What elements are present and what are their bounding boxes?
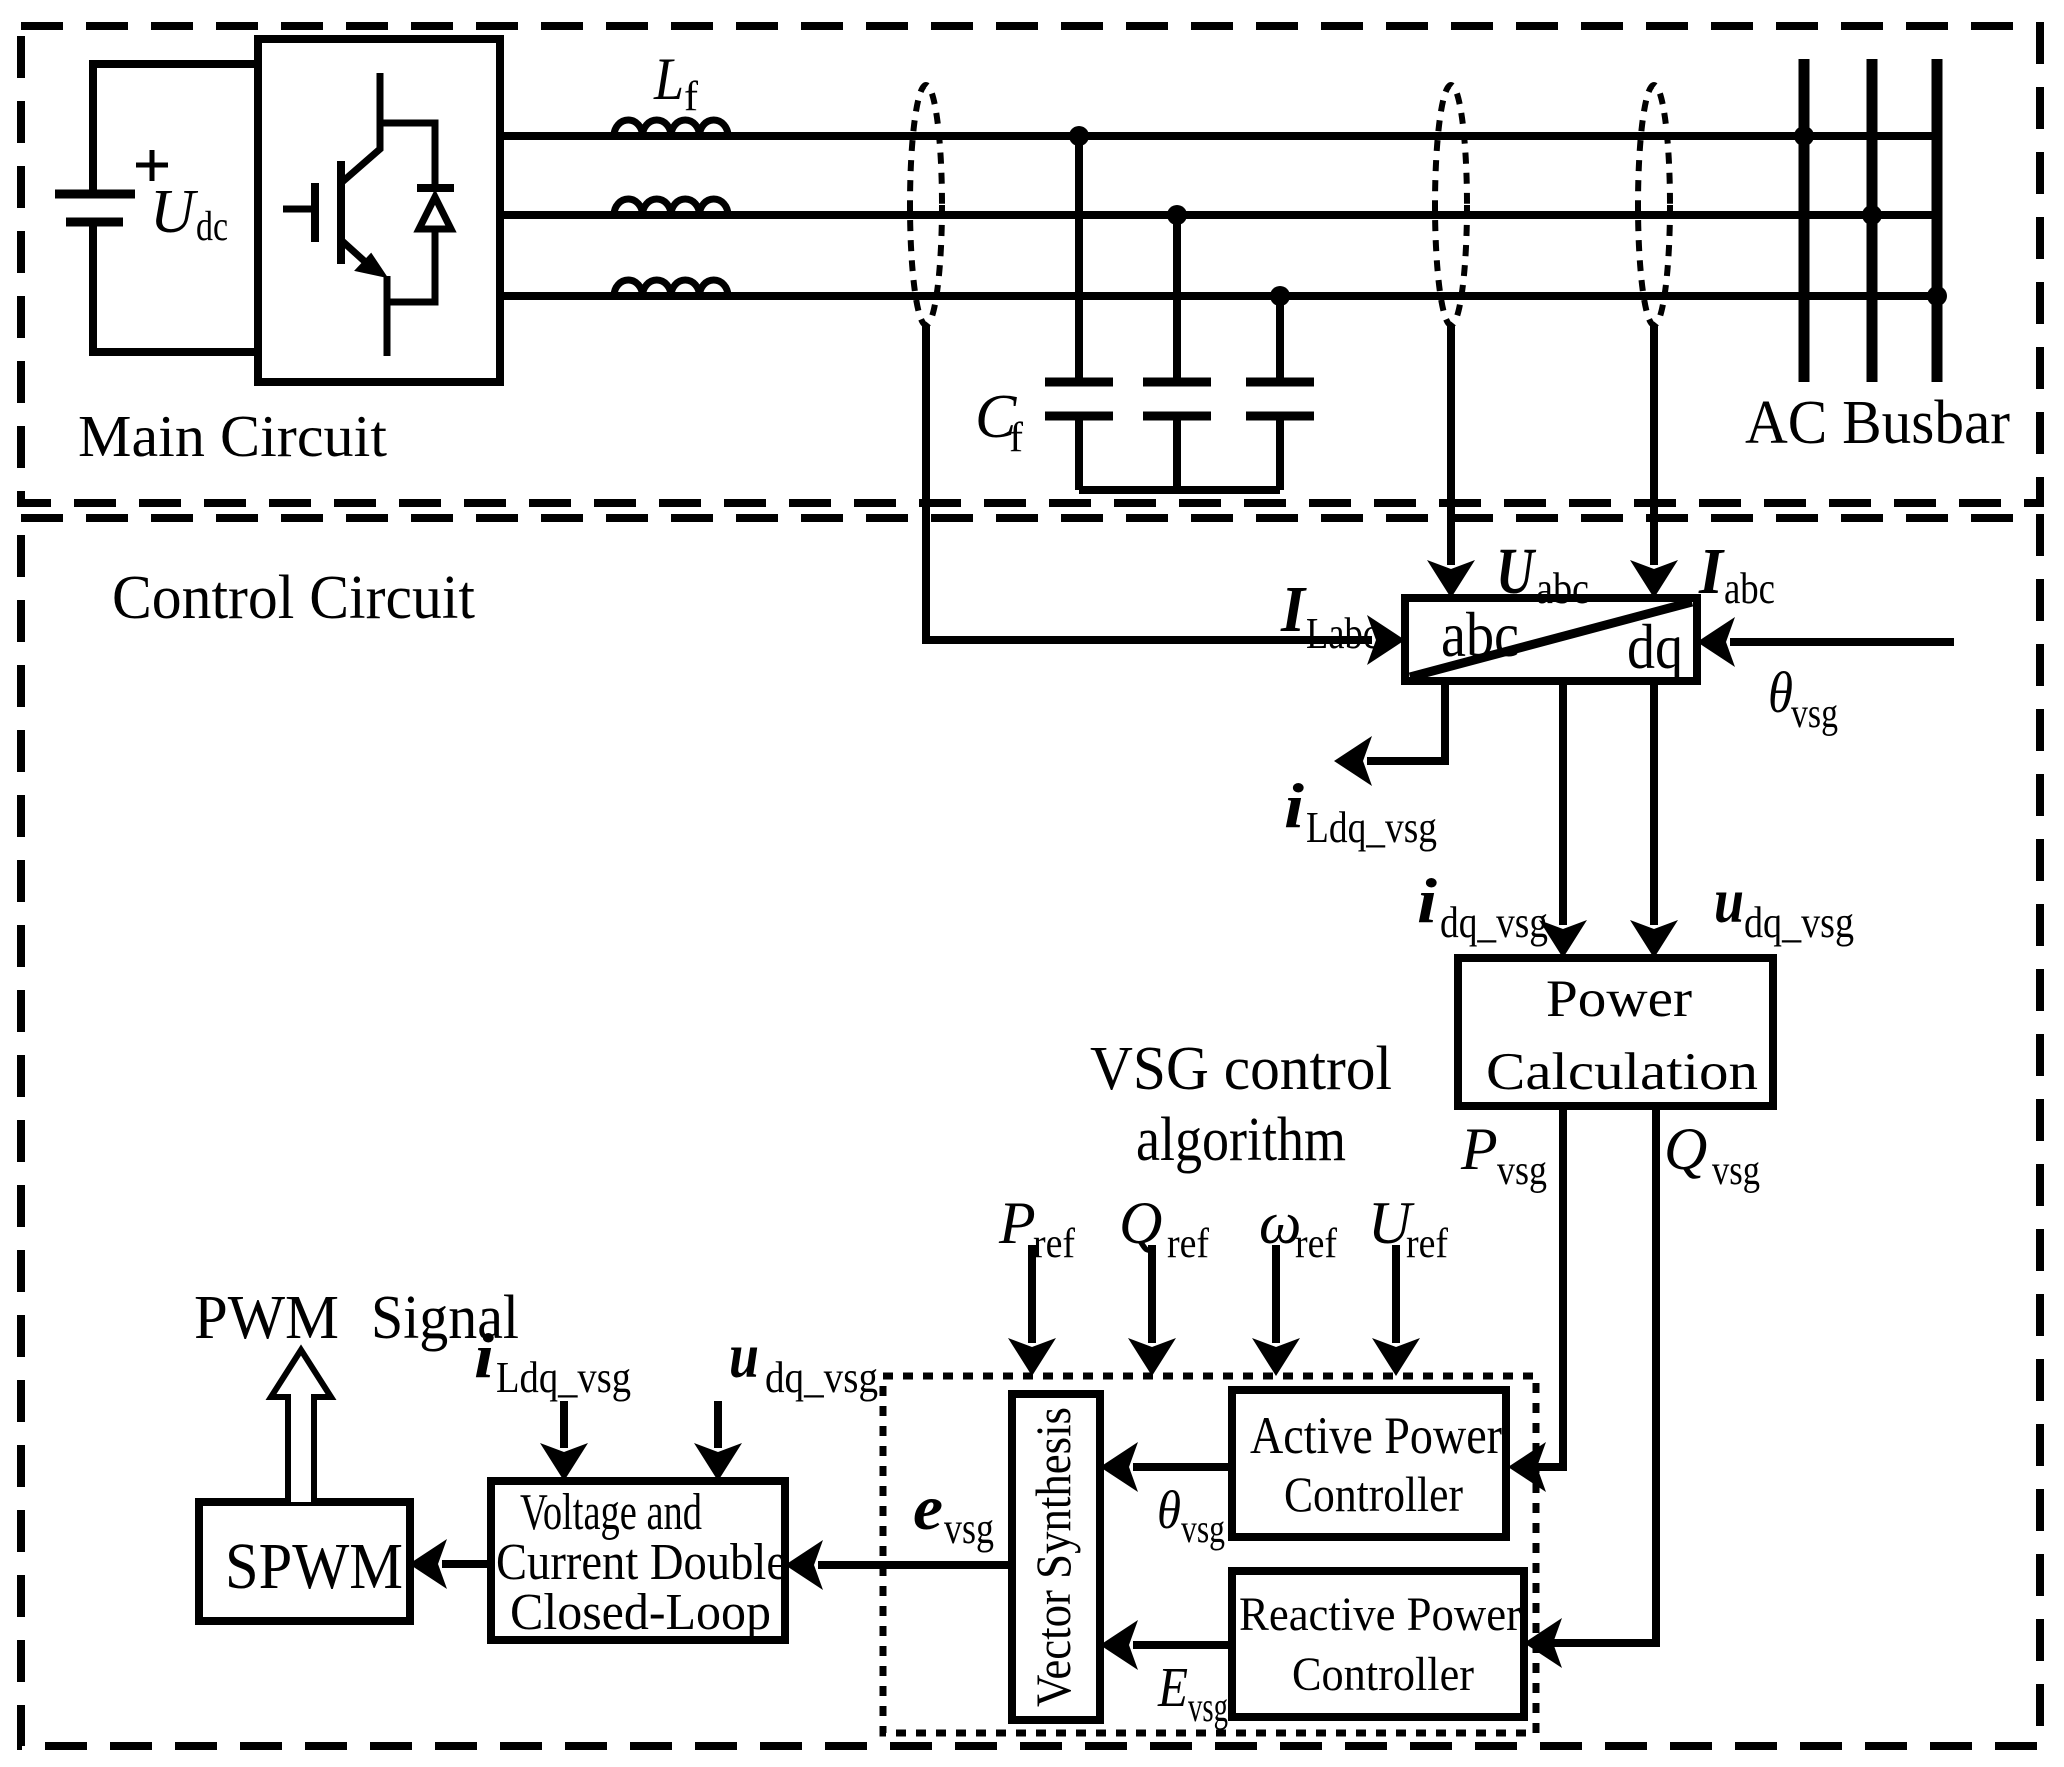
label Qvsg: [1664, 1116, 1760, 1194]
wire Evsg RPC to vector synthesis: [1100, 1620, 1232, 1670]
svg-text:algorithm: algorithm: [1136, 1106, 1346, 1174]
svg-text:vsg: vsg: [944, 1504, 994, 1553]
label Uref: [1368, 1190, 1448, 1267]
label Udc: [150, 178, 228, 250]
svg-text:Calculation: Calculation: [1486, 1043, 1758, 1101]
battery Udc wires: [93, 64, 258, 352]
anti-parallel diode D1: [380, 123, 454, 302]
wire Qref input: [1128, 1245, 1176, 1376]
capacitor Cf phase B lead: [1173, 215, 1181, 490]
capacitor Cf phase C lead: [1276, 296, 1284, 490]
label evsg: [913, 1472, 994, 1553]
svg-text:dq_vsg: dq_vsg: [1744, 898, 1854, 947]
svg-text:AC Busbar: AC Busbar: [1745, 389, 2010, 457]
svg-text:vsg: vsg: [1181, 1506, 1225, 1551]
svg-text:Labc: Labc: [1306, 609, 1379, 658]
label VSG control algorithm: [1090, 1035, 1392, 1174]
svg-text:abc: abc: [1536, 564, 1589, 613]
svg-text:VSG control: VSG control: [1090, 1035, 1392, 1103]
svg-text:vsg: vsg: [1791, 691, 1838, 737]
svg-text:vsg: vsg: [1188, 1685, 1228, 1731]
svg-text:f: f: [684, 74, 698, 120]
svg-text:L: L: [653, 46, 684, 112]
svg-text:Voltage and: Voltage and: [520, 1484, 702, 1541]
svg-text:E: E: [1157, 1657, 1188, 1719]
wire Pref input: [1008, 1245, 1056, 1376]
vector synthesis block: [1012, 1394, 1100, 1720]
capacitor Cf plates C: [1246, 382, 1314, 416]
inductor Lf phase A: [614, 120, 728, 136]
label ILabc: [1280, 573, 1379, 658]
svg-text:P: P: [1460, 1116, 1498, 1182]
svg-text:Control Circuit: Control Circuit: [112, 564, 475, 632]
label Main Circuit: [78, 403, 388, 469]
current sensor S3 (dashed ellipse): [1638, 85, 1670, 325]
wire udq_vsg into VC loop: [694, 1401, 742, 1481]
wire omega_ref input: [1252, 1245, 1300, 1376]
label Cf: [975, 383, 1023, 461]
capacitor Cf plates A: [1045, 382, 1113, 416]
wire Pvsg to active power controller: [1508, 1106, 1563, 1492]
node C junction: [1270, 286, 1290, 306]
capacitor bank neutral bus: [1079, 486, 1280, 494]
svg-text:Ldq_vsg: Ldq_vsg: [496, 1353, 631, 1402]
SPWM block: [199, 1502, 410, 1621]
svg-text:abc: abc: [1441, 599, 1519, 670]
wire ILabc from sensor S1: [926, 325, 1405, 665]
svg-text:Power: Power: [1546, 970, 1692, 1028]
label Lf: [653, 46, 698, 120]
node A junction: [1069, 126, 1089, 146]
battery Udc plates: [55, 194, 135, 222]
busbar node phase B: [1862, 205, 1882, 225]
label Uabc: [1496, 535, 1589, 613]
svg-text:dq_vsg: dq_vsg: [1440, 898, 1548, 947]
label Pref: [998, 1190, 1075, 1267]
reactive power controller block: [1232, 1571, 1524, 1717]
label idq_vsg: [1417, 865, 1548, 947]
svg-text:θ: θ: [1768, 660, 1793, 725]
inductor Lf phase B: [614, 199, 728, 215]
svg-text:I: I: [1280, 573, 1307, 646]
svg-text:ref: ref: [1167, 1221, 1209, 1267]
svg-text:i: i: [1284, 770, 1304, 841]
wire phase C: [500, 292, 1937, 300]
svg-text:vsg: vsg: [1497, 1148, 1547, 1194]
node B junction: [1167, 205, 1187, 225]
voltage sensor S2 (dashed ellipse): [1435, 85, 1467, 325]
inverter box U1: [258, 39, 500, 382]
svg-text:ref: ref: [1295, 1221, 1337, 1267]
svg-text:dc: dc: [196, 204, 228, 250]
svg-text:Q: Q: [1664, 1116, 1707, 1182]
wire udq_vsg to power calculation: [1630, 681, 1678, 958]
svg-text:θ: θ: [1157, 1480, 1181, 1540]
wire iLdq_vsg output: [1334, 681, 1445, 786]
busbar node phase A: [1794, 126, 1814, 146]
wire Uabc from sensor S2: [1427, 325, 1475, 598]
AC busbar bar 1: [1799, 59, 1810, 382]
wire phase A: [500, 132, 1937, 140]
wire VC loop to SPWM: [409, 1539, 491, 1589]
label Control Circuit: [112, 564, 475, 632]
wire theta_vsg stub: [1697, 617, 1954, 667]
main circuit dashed border: [21, 26, 2040, 503]
svg-text:Active Power: Active Power: [1250, 1407, 1502, 1465]
plus sign: [136, 150, 168, 181]
wire theta_vsg APC to vector synthesis: [1100, 1442, 1232, 1492]
svg-text:i: i: [1417, 865, 1437, 936]
PWM signal hollow arrow: [271, 1350, 331, 1502]
abc/dq transform block: [1405, 598, 1697, 682]
IGBT Q1: [283, 73, 387, 356]
svg-text:Controller: Controller: [1284, 1466, 1463, 1522]
svg-text:Current Double: Current Double: [496, 1534, 787, 1591]
label Qref: [1119, 1190, 1209, 1267]
label Iabc: [1698, 535, 1775, 613]
busbar node phase C: [1927, 286, 1947, 306]
label theta_vsg: [1768, 660, 1838, 737]
svg-text:Vector Synthesis: Vector Synthesis: [1025, 1407, 1081, 1707]
wire iLdq_vsg into VC loop: [540, 1401, 588, 1481]
svg-text:U: U: [150, 178, 199, 246]
svg-text:I: I: [1698, 535, 1725, 608]
label iLdq_vsg: [1284, 770, 1437, 852]
svg-text:dq: dq: [1627, 611, 1683, 682]
svg-text:vsg: vsg: [1712, 1148, 1760, 1194]
inductor Lf phase C: [614, 280, 728, 296]
wire phase B: [500, 211, 1937, 219]
svg-text:PWM: PWM: [194, 1284, 339, 1352]
wire Uref input: [1372, 1245, 1420, 1376]
label theta_vsg inner: [1157, 1480, 1225, 1551]
svg-text:ref: ref: [1406, 1221, 1448, 1267]
capacitor Cf plates B: [1143, 382, 1211, 416]
label udq_vsg input: [729, 1320, 878, 1402]
wire Qvsg to reactive power controller: [1524, 1106, 1656, 1668]
svg-text:Signal: Signal: [371, 1284, 519, 1352]
voltage and current double closed-loop block: [491, 1481, 787, 1641]
svg-text:Main Circuit: Main Circuit: [78, 403, 388, 469]
svg-text:u: u: [729, 1320, 759, 1391]
label iLdq_vsg input: [474, 1320, 631, 1402]
power calculation block: [1458, 958, 1773, 1106]
AC busbar bar 2: [1867, 59, 1878, 382]
label Pvsg: [1460, 1116, 1547, 1194]
wire idq_vsg to power calculation: [1539, 681, 1587, 958]
active power controller block: [1232, 1390, 1506, 1537]
AC busbar bar 3: [1932, 59, 1943, 382]
VSG algorithm dotted box: [883, 1376, 1536, 1733]
svg-text:ref: ref: [1033, 1221, 1075, 1267]
svg-text:Closed-Loop: Closed-Loop: [510, 1584, 771, 1641]
label udq_vsg: [1714, 865, 1854, 947]
capacitor Cf phase A lead: [1075, 136, 1083, 490]
current sensor S1 (dashed ellipse): [910, 85, 942, 325]
svg-text:f: f: [1009, 415, 1023, 461]
svg-text:Controller: Controller: [1292, 1648, 1474, 1701]
svg-text:Reactive Power: Reactive Power: [1239, 1588, 1521, 1641]
label AC Busbar: [1745, 389, 2010, 457]
svg-text:SPWM: SPWM: [225, 1530, 403, 1603]
label PWM Signal: [194, 1284, 519, 1352]
wire evsg to voltage current loop: [785, 1540, 1012, 1590]
label Evsg: [1157, 1657, 1228, 1731]
wire Iabc from sensor S3: [1630, 325, 1678, 598]
svg-text:abc: abc: [1724, 564, 1775, 613]
label omega_ref: [1259, 1190, 1337, 1267]
svg-text:u: u: [1714, 865, 1744, 936]
svg-text:Ldq_vsg: Ldq_vsg: [1306, 803, 1437, 852]
svg-text:e: e: [913, 1472, 943, 1543]
control circuit dashed border: [21, 518, 2040, 1746]
svg-text:dq_vsg: dq_vsg: [765, 1353, 878, 1402]
